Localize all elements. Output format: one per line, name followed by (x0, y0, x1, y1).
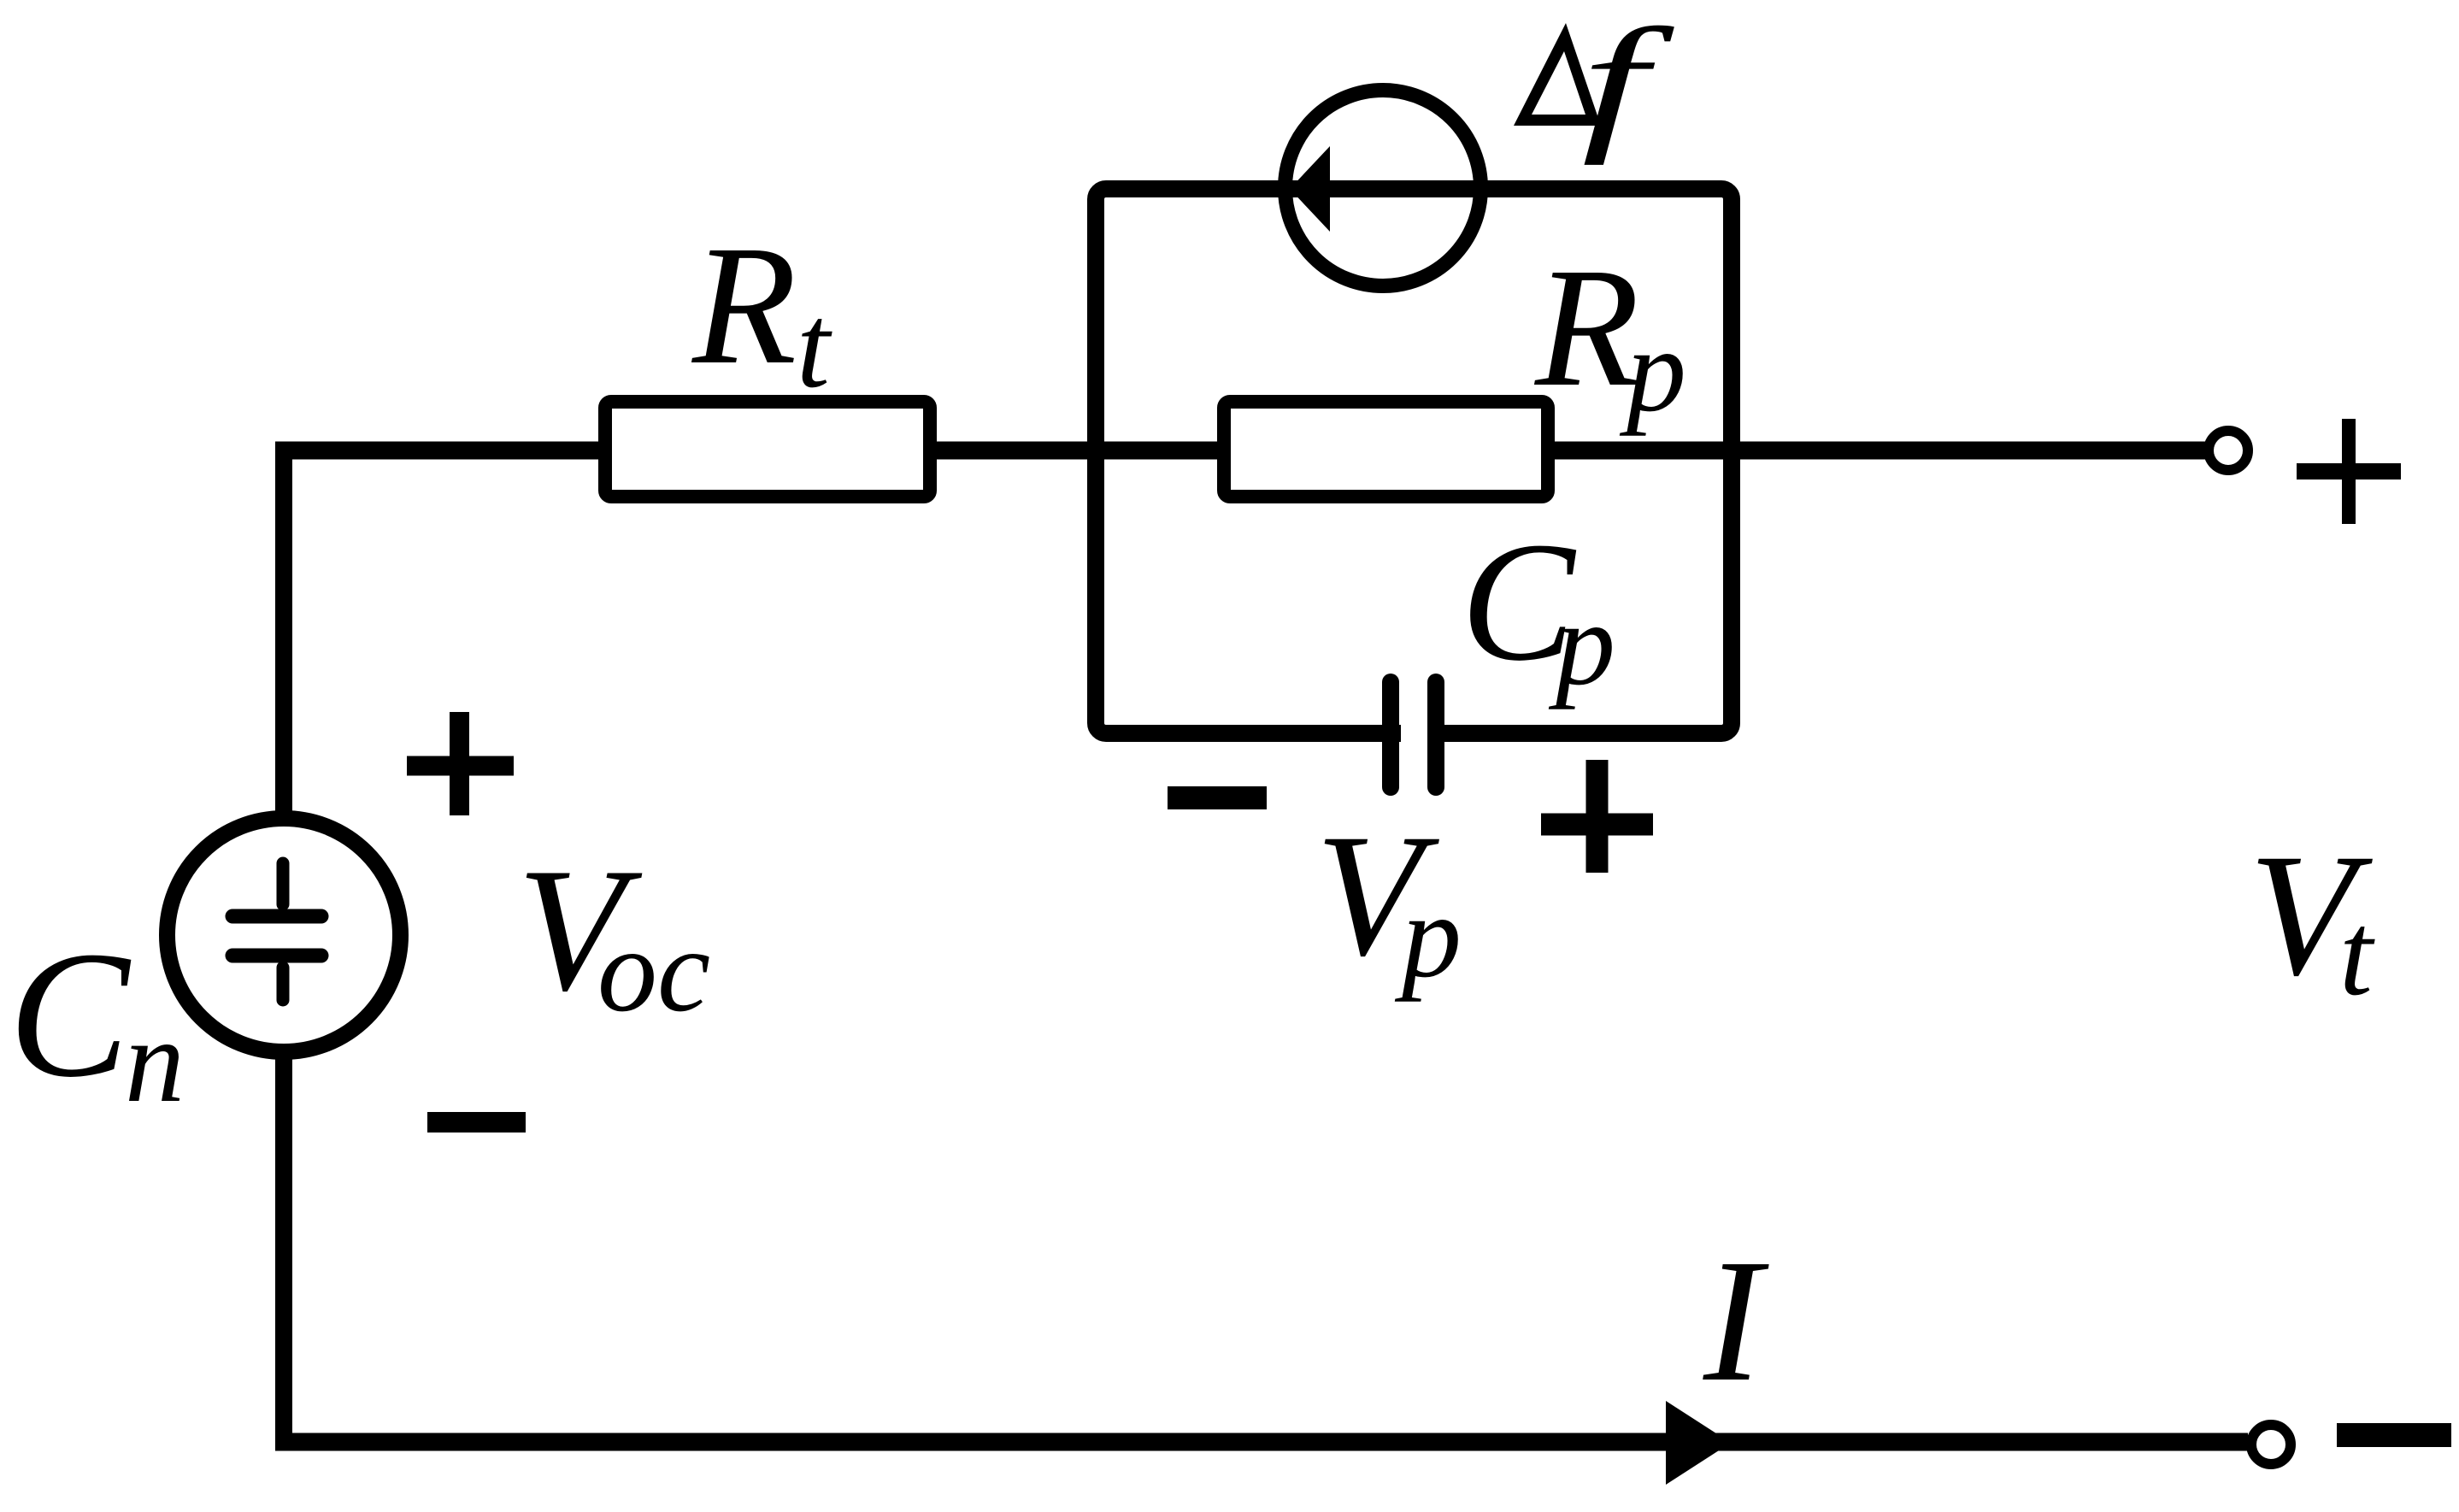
resistor Rt (605, 402, 930, 497)
voltage source internal capacitor bottom stub (277, 968, 290, 1000)
svg-text:R: R (1533, 233, 1639, 422)
wire: left vertical, node A down to source Voc top (275, 442, 292, 815)
current source Df arrow (points left) (1290, 146, 1330, 232)
plus sign of Voc (407, 712, 514, 815)
negative output terminal (2251, 1425, 2291, 1464)
wire: bottom rail to negative terminal (275, 1433, 2248, 1451)
svg-text:I: I (1703, 1222, 1769, 1418)
voltage source Voc circle (battery capacity Cn) (168, 819, 401, 1052)
capacitor Cp right plate (1427, 682, 1444, 787)
svg-text:t: t (797, 280, 832, 413)
resistor Rp (1224, 402, 1548, 497)
voltage source internal capacitor bottom plate (232, 949, 321, 963)
voltage source internal capacitor top plate (232, 909, 321, 924)
plus sign of Vt terminal (2297, 463, 2401, 479)
capacitor Cp left plate (1382, 682, 1399, 787)
plus sign of Vp (1541, 760, 1653, 873)
wire: top rail, node A to resistor Rt (275, 442, 598, 460)
label Df (1514, 23, 1601, 126)
svg-text:C: C (9, 914, 132, 1115)
svg-text:n: n (125, 995, 185, 1127)
wire: parallel group loop (Df / Rp / Cp) (1096, 189, 1732, 733)
svg-text:p: p (1619, 304, 1686, 437)
svg-text:t: t (2339, 888, 2375, 1021)
svg-text:R: R (691, 211, 797, 400)
current source Df circle (1285, 91, 1481, 286)
svg-text:p: p (1394, 870, 1462, 1003)
wire: Rt to Rp, crossing parallel-group left leg (937, 442, 1224, 460)
minus sign of Vt terminal (2337, 1423, 2451, 1447)
current arrow I (1666, 1401, 1731, 1485)
capacitor Cp gap mask (1401, 718, 1427, 749)
minus sign of Voc (427, 1112, 526, 1133)
wire: left vertical, source Voc bottom down to bottom rail (275, 1058, 292, 1451)
positive output terminal (2209, 431, 2248, 470)
minus sign of Vp (1168, 786, 1267, 809)
wire: Rp to positive terminal, crossing parallel-group right leg (1548, 442, 2206, 460)
svg-text:oc: oc (597, 904, 710, 1037)
svg-text:p: p (1548, 578, 1615, 710)
voltage source internal capacitor top stub (277, 863, 290, 904)
